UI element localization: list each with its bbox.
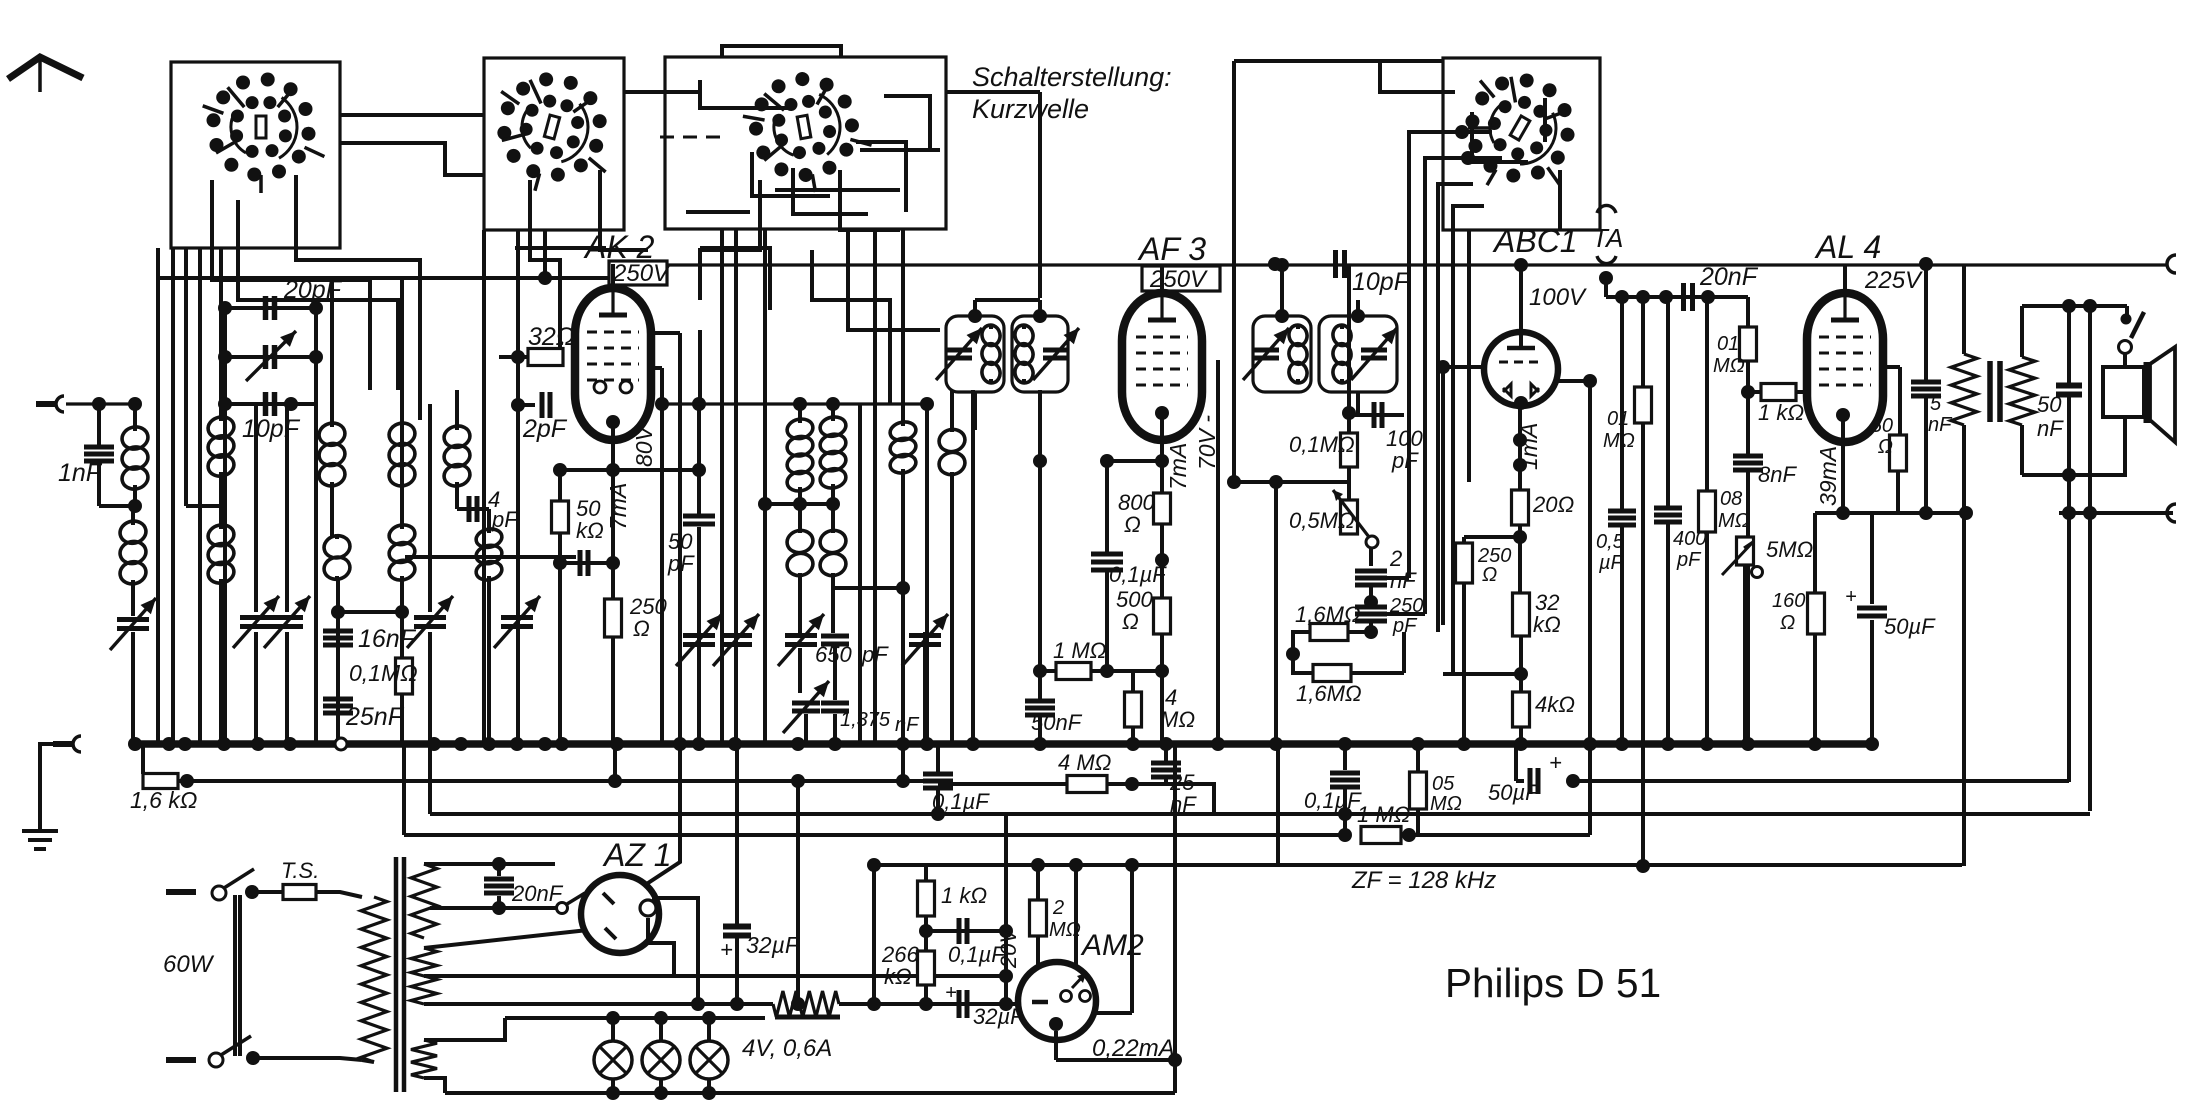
svg-text:1,6MΩ: 1,6MΩ [1296, 681, 1362, 706]
svg-text:225V: 225V [1864, 267, 1923, 294]
svg-text:2pF: 2pF [522, 415, 568, 443]
svg-text:nF: nF [1390, 568, 1417, 593]
svg-text:1 kΩ: 1 kΩ [1758, 400, 1804, 425]
svg-text:250V: 250V [612, 260, 671, 287]
svg-text:0,5MΩ: 0,5MΩ [1289, 508, 1355, 533]
svg-text:Ω: Ω [1878, 436, 1893, 458]
svg-text:MΩ: MΩ [1160, 707, 1195, 732]
svg-text:4 MΩ: 4 MΩ [1058, 750, 1111, 775]
svg-text:2: 2 [1052, 897, 1064, 919]
svg-text:+: + [720, 937, 733, 962]
svg-text:pF: pF [861, 642, 889, 667]
svg-text:50µF: 50µF [1884, 614, 1936, 639]
svg-text:kΩ: kΩ [576, 518, 604, 543]
svg-text:MΩ: MΩ [1718, 510, 1750, 532]
svg-text:0,1µF: 0,1µF [932, 789, 990, 814]
svg-text:1,375: 1,375 [840, 709, 891, 731]
svg-text:+: + [1549, 750, 1562, 775]
svg-text:1,6 kΩ: 1,6 kΩ [130, 787, 197, 813]
svg-text:20Ω: 20Ω [1532, 492, 1574, 517]
svg-text:0,22mA: 0,22mA [1092, 1035, 1175, 1062]
svg-text:ABC1: ABC1 [1492, 223, 1578, 259]
svg-text:0,1µF: 0,1µF [1304, 788, 1362, 813]
svg-text:01: 01 [1607, 408, 1629, 430]
svg-text:160: 160 [1772, 590, 1805, 612]
svg-text:Ω: Ω [1482, 564, 1497, 586]
svg-text:nF: nF [2037, 416, 2064, 441]
svg-text:100V: 100V [1529, 284, 1587, 311]
svg-text:20nF: 20nF [1699, 263, 1759, 291]
svg-text:0,1MΩ: 0,1MΩ [1289, 432, 1355, 457]
svg-text:Schalterstellung:: Schalterstellung: [972, 62, 1172, 92]
svg-text:50µF: 50µF [1488, 780, 1540, 805]
svg-text:Philips D 51: Philips D 51 [1445, 960, 1661, 1006]
svg-text:TA: TA [1592, 223, 1623, 253]
svg-text:5MΩ: 5MΩ [1766, 537, 1813, 562]
svg-text:kΩ: kΩ [884, 964, 912, 989]
svg-text:80V: 80V [631, 423, 657, 467]
svg-text:1,6MΩ: 1,6MΩ [1295, 602, 1361, 627]
svg-text:1 kΩ: 1 kΩ [941, 883, 987, 908]
svg-text:kΩ: kΩ [1533, 612, 1561, 637]
svg-text:1mA: 1mA [1516, 423, 1542, 470]
svg-text:+: + [945, 982, 957, 1004]
svg-text:20nF: 20nF [511, 881, 564, 906]
svg-text:250V: 250V [1149, 266, 1208, 293]
svg-text:08: 08 [1720, 488, 1742, 510]
svg-text:0,5: 0,5 [1596, 531, 1625, 553]
svg-text:+: + [1845, 586, 1857, 608]
svg-text:pF: pF [1676, 549, 1702, 571]
svg-text:50: 50 [2037, 392, 2062, 417]
svg-text:650: 650 [815, 642, 852, 667]
svg-text:25nF: 25nF [345, 703, 405, 731]
svg-text:05: 05 [1432, 773, 1455, 795]
svg-text:50: 50 [1871, 415, 1893, 437]
svg-text:20V: 20V [996, 927, 1021, 969]
svg-text:ZF = 128 kHz: ZF = 128 kHz [1351, 867, 1496, 894]
svg-text:1nF: 1nF [58, 459, 103, 487]
svg-text:AF 3: AF 3 [1137, 231, 1206, 267]
svg-text:39mA: 39mA [1815, 446, 1841, 506]
svg-text:50nF: 50nF [1031, 710, 1083, 735]
svg-text:01: 01 [1717, 333, 1739, 355]
svg-text:Ω: Ω [633, 616, 650, 641]
svg-text:pF: pF [667, 551, 695, 576]
svg-text:7mA: 7mA [1165, 443, 1191, 490]
svg-text:0,1MΩ: 0,1MΩ [349, 660, 418, 686]
svg-text:Ω: Ω [1124, 512, 1141, 537]
svg-text:60W: 60W [163, 951, 215, 978]
svg-text:5: 5 [1930, 393, 1942, 415]
svg-text:8nF: 8nF [1758, 462, 1797, 487]
svg-text:10pF: 10pF [242, 415, 301, 443]
svg-text:nF: nF [1928, 414, 1953, 436]
svg-text:AM2: AM2 [1080, 929, 1144, 962]
svg-text:T.S.: T.S. [281, 858, 319, 883]
svg-text:4V, 0,6A: 4V, 0,6A [742, 1035, 832, 1062]
svg-text:AL 4: AL 4 [1814, 229, 1881, 265]
svg-text:MΩ: MΩ [1713, 355, 1745, 377]
svg-text:nF: nF [895, 714, 920, 736]
svg-text:32µF: 32µF [746, 932, 801, 958]
svg-text:µF: µF [1598, 552, 1625, 574]
svg-text:32Ω: 32Ω [528, 323, 575, 351]
svg-text:1 MΩ: 1 MΩ [1053, 638, 1106, 663]
svg-text:7mA: 7mA [605, 483, 631, 530]
svg-text:Kurzwelle: Kurzwelle [972, 94, 1089, 124]
svg-text:MΩ: MΩ [1430, 793, 1462, 815]
svg-text:Ω: Ω [1780, 612, 1795, 634]
svg-text:MΩ: MΩ [1603, 430, 1635, 452]
svg-text:10pF: 10pF [1352, 268, 1411, 296]
svg-text:Ω: Ω [1122, 609, 1139, 634]
svg-text:pF: pF [1391, 448, 1419, 473]
svg-text:4kΩ: 4kΩ [1535, 692, 1575, 717]
svg-text:AZ 1: AZ 1 [602, 837, 672, 873]
